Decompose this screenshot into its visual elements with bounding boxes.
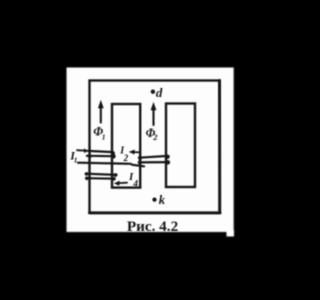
core outer outline: [90, 81, 220, 213]
node k: [152, 198, 156, 202]
winding wire middle leg turn bottom: [138, 160, 170, 164]
svg-text:4: 4: [132, 179, 138, 189]
svg-text:d: d: [156, 85, 163, 100]
scan page white background: [67, 68, 235, 237]
right window: [166, 104, 195, 188]
current arrow I4: [114, 181, 127, 186]
winding wire left leg turn2 top: [85, 172, 118, 177]
svg-text:k: k: [159, 193, 166, 207]
node d: [151, 90, 155, 94]
svg-text:2: 2: [152, 132, 158, 142]
winding wire left leg turn2 bottom: [85, 177, 116, 181]
svg-text:2: 2: [123, 153, 129, 163]
current arrow I2: [129, 150, 140, 155]
svg-text:1: 1: [102, 133, 106, 142]
winding wire left leg turn1 top: [88, 151, 115, 155]
current arrow I1: [77, 149, 89, 154]
winding lead wire to middle leg: [78, 163, 144, 167]
svg-text:Рис. 4.2: Рис. 4.2: [127, 218, 178, 235]
left window: [112, 104, 140, 188]
flux arrow Phi1: [98, 100, 104, 123]
winding wire left leg turn1 bottom: [87, 154, 116, 158]
flux arrow Phi2: [151, 102, 157, 125]
winding wire middle leg turn top: [138, 155, 170, 160]
svg-text:1: 1: [74, 156, 78, 165]
